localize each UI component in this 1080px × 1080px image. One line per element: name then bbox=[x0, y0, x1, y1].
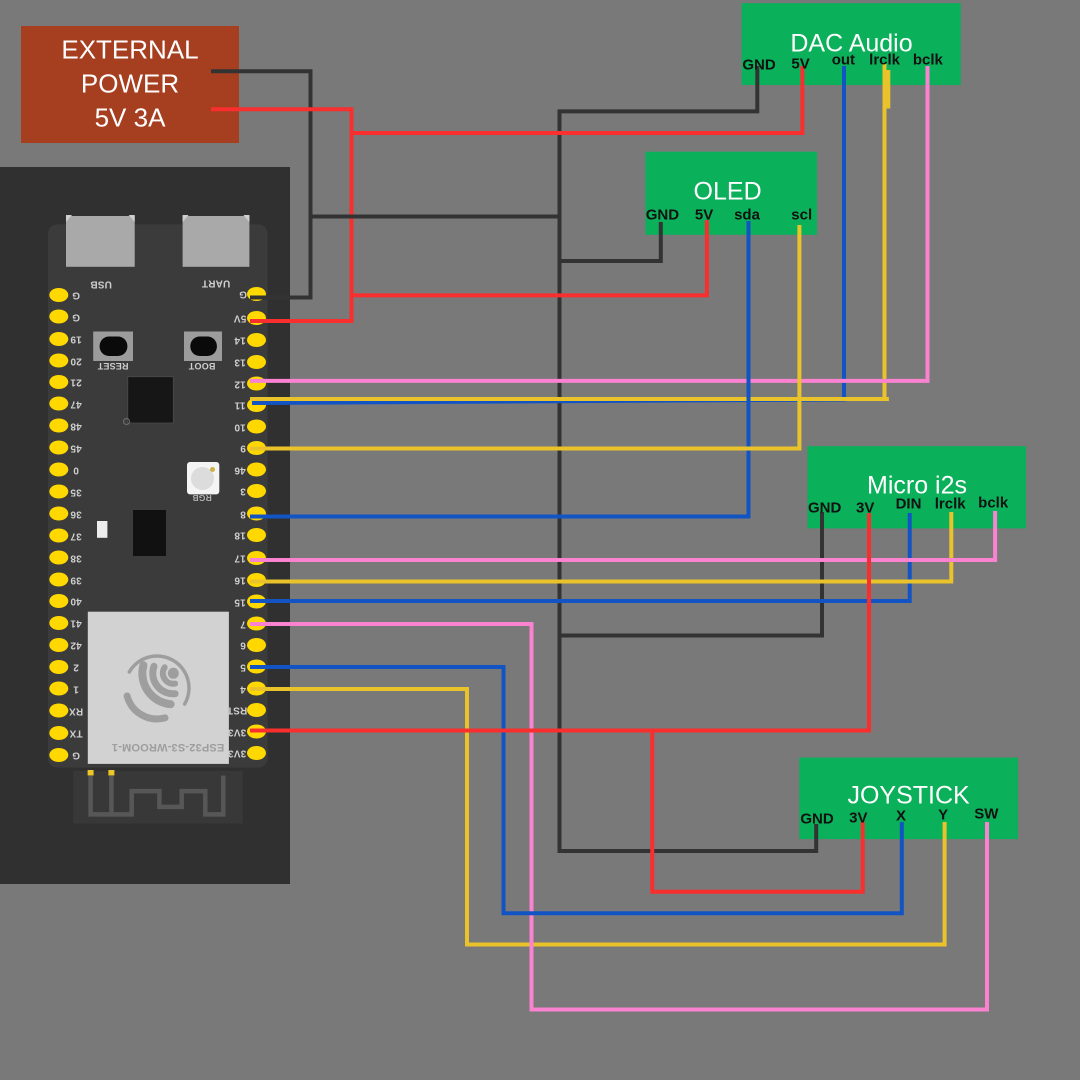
wire 5V: external power to board 5V pin bbox=[211, 109, 352, 321]
antenna meander bbox=[91, 776, 224, 815]
wire GND: external power to board pin G bbox=[211, 71, 311, 297]
ESP32 dev-board dark panel bbox=[0, 167, 290, 884]
board silkscreen bbox=[90, 279, 112, 290]
wire GND trunk: DAC GND to JOYSTICK GND bbox=[560, 66, 817, 851]
wire 5V branch to DAC 5V bbox=[352, 66, 803, 133]
wire OLED scl to board pin 9 bbox=[250, 225, 799, 449]
right pin labels bbox=[239, 289, 247, 300]
wire GND: Micro i2s GND to trunk bbox=[560, 512, 823, 636]
wire 3V3 branch to JOYSTICK 3V bbox=[652, 731, 862, 892]
wire OLED sda to board pin 8 bbox=[250, 221, 749, 517]
wire 5V branch to OLED 5V bbox=[352, 220, 707, 295]
wire board pin 4 to JOYSTICK Y bbox=[250, 689, 945, 945]
EXTERNAL POWER label bbox=[61, 35, 198, 66]
wire Micro i2s lrclk to board pin 16 bbox=[250, 512, 951, 582]
main chip U0 bbox=[124, 377, 174, 425]
RESET button bbox=[93, 332, 133, 362]
Micro i2s labels bbox=[867, 471, 967, 500]
wire Micro i2s bclk to board pin 17 bbox=[250, 511, 995, 560]
left pin header bbox=[49, 288, 68, 762]
wire board pin 5 to JOYSTICK X bbox=[250, 667, 902, 913]
OLED labels bbox=[694, 178, 762, 207]
small SMD part bbox=[97, 521, 107, 538]
EXTERNAL POWER block bbox=[21, 26, 239, 143]
JOYSTICK labels bbox=[847, 782, 969, 811]
RGB LED bbox=[187, 462, 219, 494]
wire board pin 7 to JOYSTICK SW bbox=[250, 624, 987, 1010]
DAC Audio module bbox=[742, 3, 961, 85]
USB connector (USB) bbox=[66, 215, 135, 267]
wire DAC lrclk bend segment bbox=[886, 70, 890, 109]
black SMD rect bbox=[133, 510, 166, 556]
Espressif logo bbox=[127, 656, 189, 719]
wire DAC out to board pin 11 bbox=[252, 66, 844, 403]
DAC Audio labels bbox=[790, 30, 912, 59]
antenna region bbox=[73, 771, 243, 824]
left pin labels bbox=[72, 290, 80, 301]
wire DAC lrclk to board pin 11 bbox=[250, 64, 889, 399]
wire 3V3: board 3V3 to Micro i2s 3V bbox=[250, 513, 869, 731]
wire GND branch to trunk bbox=[311, 215, 560, 219]
Micro i2s module bbox=[807, 446, 1026, 528]
ESP32 board PCB bbox=[48, 225, 268, 768]
ESP32-S3-WROOM-1 module bbox=[88, 612, 229, 764]
JOYSTICK module bbox=[799, 758, 1018, 840]
wire GND: OLED GND to trunk bbox=[560, 222, 661, 261]
wire Micro i2s DIN to board pin 15 bbox=[250, 513, 910, 601]
right pin header bbox=[247, 287, 266, 760]
wire DAC bclk to board pin 12 bbox=[250, 66, 928, 381]
USB connector (UART) bbox=[183, 215, 250, 267]
BOOT button bbox=[184, 332, 222, 362]
OLED module bbox=[645, 152, 817, 235]
module pads bbox=[88, 770, 94, 776]
